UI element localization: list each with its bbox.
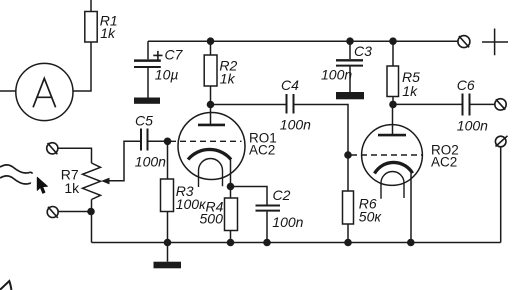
terminal output top [495,99,506,110]
node bus / cathode RO2 [407,239,415,247]
resistor R2 bottom stem [210,86,212,105]
heater RO2 [381,172,404,199]
svg-text:AC2: AC2 [249,143,275,158]
cathode RO2 lead [410,174,412,243]
resistor R4 bottom stem [230,231,232,243]
anode RO1 plate [198,124,225,127]
node junction R2 bottom / anode RO1 [207,101,215,109]
svg-text:100n: 100n [457,117,488,133]
svg-text:1k: 1k [220,71,236,87]
svg-text:1k: 1k [64,180,80,196]
cathode RO1 arc [188,149,231,159]
node junction top of R2 [207,37,215,45]
wire R7 bottom to ground bus [91,200,93,243]
svg-text:500: 500 [200,211,224,227]
anode RO1 stem [210,105,212,125]
ground of C3 [336,92,364,99]
node R7 bottom [87,208,95,216]
resistor R6 [343,191,354,224]
svg-text:AC2: AC2 [431,155,457,170]
cathode RO1 lead [230,160,232,187]
node junction R5 top [389,37,397,45]
resistor R6 bottom stem [347,224,349,243]
wire R1 bottom to ammeter [73,42,91,91]
anode RO2 plate [378,134,406,137]
svg-text:C2: C2 [273,187,291,203]
svg-text:C3: C3 [354,43,372,59]
terminal input bottom [47,207,58,218]
main ground stem [167,243,169,262]
node bus / R6 [344,239,352,247]
svg-text:C6: C6 [457,77,475,93]
wire input top to R7 [58,148,91,163]
svg-text:C5: C5 [135,113,153,129]
wire wiper of R7 to C5 [106,141,141,181]
mouse cursor [37,177,47,193]
node junction C3 top [346,37,354,45]
svg-text:C7: C7 [165,47,184,63]
node cathode RO1 [227,183,235,191]
wire ammeter left lead [0,90,16,92]
wire input bottom to node [59,211,89,213]
ground of C7 [134,98,160,104]
resistor R5 [387,66,399,97]
svg-text:100n: 100n [272,214,303,230]
resistor R3 bottom stem [167,212,169,243]
svg-text:C4: C4 [281,77,299,93]
svg-text:1k: 1k [402,83,418,99]
signal source squiggle [0,165,33,174]
resistor R2 top stem [210,41,212,55]
node junction R5 bottom / anode RO2 [389,101,397,109]
resistor R3 [161,179,174,212]
resistor R5 bottom stem [392,97,394,105]
svg-text:1k: 1k [100,25,116,41]
capacitor C3 plates [336,59,363,61]
potentiometer R7 zigzag [83,163,101,200]
terminal output bottom [495,136,506,147]
grid RO2 dashed [351,154,422,156]
tube RO2 envelope [362,125,423,186]
resistor R1 [85,12,97,43]
capacitor C7 plates [134,59,161,62]
capacitor C3 bottom stem [349,67,351,92]
wire bottom terminal to ground bus [500,147,502,243]
wire top supply bus [148,40,458,42]
terminal input top [47,143,58,154]
svg-text:100n: 100n [135,153,166,169]
wire cathode RO1 to C2 [231,187,268,205]
plus symbol supply [482,29,508,56]
heater RO1 [199,159,223,188]
node grid RO1 [164,138,172,146]
polarity plus of C7 [153,51,162,60]
capacitor C2 plates [256,205,281,207]
anode RO2 stem [392,104,394,134]
wiper arrow head R7 [101,178,110,185]
node grid RO2 [344,151,352,159]
capacitor C4 [286,94,288,114]
capacitor C5 [140,129,142,151]
resistor R5 top stem [392,41,394,66]
wire C4 to grid node of RO2 [294,105,349,192]
node bus / C2 [263,239,271,247]
wire C6 to output terminal [470,103,495,105]
cathode RO2 arc [375,162,413,173]
node bus / R3 [164,239,172,247]
tube RO1 envelope [178,113,245,180]
capacitor C6 [462,94,464,116]
ground (main) [154,262,182,269]
svg-text:50к: 50к [359,209,383,225]
wire R1 top lead [90,0,92,12]
ammeter A [16,63,73,120]
grid RO1 dashed [170,140,242,142]
capacitor C7 bottom stem [147,68,149,98]
terminal supply plus [458,36,470,48]
ground bus bottom [92,242,501,244]
capacitor C7 top stem [147,41,149,59]
capacitor C3 top stem [349,41,351,59]
capacitor C2 bottom stem [266,212,268,243]
wire C5 to grid node [148,140,168,142]
svg-text:100n: 100n [321,66,352,82]
resistor R2 [204,55,217,86]
wire R5 bottom to C6 [393,103,463,105]
logo corner mark [0,281,11,290]
node bus / R4 [227,239,235,247]
svg-text:10µ: 10µ [155,67,179,83]
resistor R4 [225,198,238,231]
resistor R3 top stem [167,141,169,179]
wire R2 bottom to C4 [211,104,287,106]
resistor R4 top stem [230,187,232,199]
svg-text:100n: 100n [280,116,311,132]
